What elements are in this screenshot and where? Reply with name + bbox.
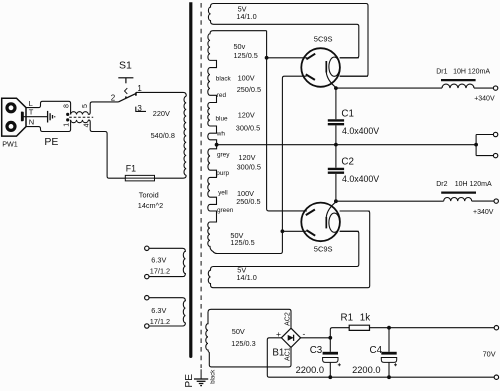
svg-text:F1: F1 xyxy=(126,164,136,174)
svg-text:120V: 120V xyxy=(238,111,255,120)
svg-text:4.0x400V: 4.0x400V xyxy=(342,126,379,136)
svg-text:R1: R1 xyxy=(341,313,354,324)
svg-text:N: N xyxy=(29,117,34,126)
svg-text:1k: 1k xyxy=(360,313,370,324)
svg-text:Dr1: Dr1 xyxy=(436,68,447,75)
svg-text:120V: 120V xyxy=(238,153,255,162)
svg-text:6.3V: 6.3V xyxy=(151,256,166,265)
svg-text:1: 1 xyxy=(137,84,142,93)
svg-text:14/1.0: 14/1.0 xyxy=(237,273,257,282)
svg-text:125/0.5: 125/0.5 xyxy=(230,238,254,247)
svg-text:2200.0: 2200.0 xyxy=(352,365,380,375)
svg-text:4.0x400V: 4.0x400V xyxy=(342,174,379,184)
svg-text:3: 3 xyxy=(137,104,142,113)
svg-text:yell: yell xyxy=(218,190,228,197)
svg-text:C3: C3 xyxy=(310,345,323,356)
svg-text:+340V: +340V xyxy=(473,209,494,216)
svg-text:5: 5 xyxy=(82,104,89,108)
svg-text:AC2: AC2 xyxy=(285,312,292,326)
svg-text:wh: wh xyxy=(216,130,226,137)
svg-text:8: 8 xyxy=(63,104,70,108)
svg-text:grey: grey xyxy=(217,151,230,158)
svg-text:10H 120mA: 10H 120mA xyxy=(453,68,490,75)
svg-text:2: 2 xyxy=(111,94,116,103)
svg-text:220V: 220V xyxy=(153,109,170,118)
svg-text:black: black xyxy=(216,75,232,82)
svg-text:17/1.2: 17/1.2 xyxy=(150,266,170,275)
svg-text:14cm^2: 14cm^2 xyxy=(138,201,163,210)
svg-text:+: + xyxy=(276,329,281,339)
svg-text:6.3V: 6.3V xyxy=(151,306,166,315)
svg-text:250/0.5: 250/0.5 xyxy=(237,85,261,94)
svg-text:17/1.2: 17/1.2 xyxy=(150,317,170,326)
svg-text:AC1: AC1 xyxy=(285,347,292,361)
svg-text:black: black xyxy=(211,369,217,384)
svg-text:540/0.8: 540/0.8 xyxy=(151,131,175,140)
svg-text:Toroid: Toroid xyxy=(139,190,159,199)
svg-text:purp: purp xyxy=(216,170,229,177)
svg-text:B1: B1 xyxy=(272,347,284,358)
svg-text:-: - xyxy=(303,329,306,339)
svg-text:T: T xyxy=(29,107,34,116)
svg-text:PE: PE xyxy=(184,374,195,388)
svg-text:4: 4 xyxy=(83,123,90,127)
svg-text:70V: 70V xyxy=(483,350,496,359)
svg-text:+340V: +340V xyxy=(474,95,495,102)
svg-text:100V: 100V xyxy=(238,74,255,83)
svg-text:50V: 50V xyxy=(232,327,245,336)
svg-text:125/0.5: 125/0.5 xyxy=(234,51,258,60)
svg-text:S1: S1 xyxy=(119,60,132,72)
svg-text:red: red xyxy=(217,92,227,99)
svg-text:1: 1 xyxy=(63,123,70,127)
svg-text:250/0.5: 250/0.5 xyxy=(236,197,260,206)
svg-text:125/0.3: 125/0.3 xyxy=(231,339,255,348)
svg-text:C1: C1 xyxy=(341,109,354,120)
svg-text:2200.0: 2200.0 xyxy=(296,365,324,375)
svg-text:C4: C4 xyxy=(370,345,383,356)
svg-text:5C9S: 5C9S xyxy=(314,245,333,254)
svg-text:PW1: PW1 xyxy=(2,139,18,148)
svg-text:300/0.5: 300/0.5 xyxy=(237,163,261,172)
svg-text:300/0.5: 300/0.5 xyxy=(236,123,260,132)
svg-text:PE: PE xyxy=(44,136,58,148)
svg-text:green: green xyxy=(217,207,234,214)
svg-text:10H 120mA: 10H 120mA xyxy=(455,181,492,188)
svg-text:Dr2: Dr2 xyxy=(436,181,447,188)
svg-text:C2: C2 xyxy=(341,157,354,168)
svg-text:14/1.0: 14/1.0 xyxy=(236,12,256,21)
svg-text:5C9S: 5C9S xyxy=(314,35,333,44)
svg-text:blue: blue xyxy=(216,115,229,122)
